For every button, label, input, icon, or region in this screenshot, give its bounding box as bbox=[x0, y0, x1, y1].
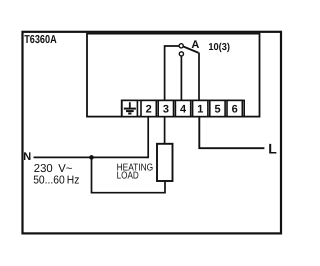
svg-text:230 V~: 230 V~ bbox=[34, 163, 73, 175]
wire terminal 3 down to load bbox=[164, 117, 166, 144]
terminal cell 2 bbox=[141, 100, 156, 116]
svg-text:T6360A: T6360A bbox=[24, 34, 57, 46]
svg-text:10(3): 10(3) bbox=[208, 42, 230, 53]
svg-text:L: L bbox=[268, 140, 277, 156]
terminal labels bbox=[146, 104, 238, 116]
wire terminal 3 up to switch bbox=[165, 46, 179, 100]
terminal cell 1 bbox=[193, 100, 208, 116]
terminal cell 5 bbox=[210, 100, 225, 116]
terminal cell 4 bbox=[175, 100, 190, 116]
svg-text:3: 3 bbox=[163, 104, 169, 116]
svg-text:A: A bbox=[191, 39, 199, 51]
svg-text:6: 6 bbox=[232, 104, 238, 116]
terminal strip container bbox=[122, 100, 245, 116]
terminal earth cell bbox=[122, 100, 137, 116]
svg-text:LOAD: LOAD bbox=[117, 170, 139, 181]
wire junction down bbox=[91, 157, 93, 192]
svg-text:4: 4 bbox=[180, 104, 187, 116]
svg-text:5: 5 bbox=[214, 104, 220, 116]
thermostat body box bbox=[87, 34, 260, 117]
wire load bottom bbox=[164, 181, 166, 194]
svg-text:2: 2 bbox=[146, 104, 152, 116]
heating load resistor bbox=[157, 144, 173, 181]
svg-text:1: 1 bbox=[197, 104, 203, 116]
terminal cell 3 bbox=[158, 100, 173, 116]
svg-text:N: N bbox=[23, 151, 31, 163]
wire terminal 4 up to contact bbox=[180, 56, 182, 100]
wire terminal 1 down to L bbox=[199, 117, 264, 149]
wire bottom return bbox=[91, 192, 165, 194]
wire terminal 2 down to N line bbox=[147, 117, 149, 158]
outer border frame bbox=[23, 32, 282, 234]
switch contact circle lower bbox=[179, 52, 183, 56]
terminal cell 6 bbox=[227, 100, 242, 116]
switch contact circle upper bbox=[179, 44, 183, 48]
switch blade A bbox=[183, 47, 198, 53]
wire terminal 1 up to blade bbox=[198, 53, 200, 101]
N supply wire bbox=[34, 156, 150, 158]
svg-text:50...60 Hz: 50...60 Hz bbox=[33, 174, 79, 186]
junction node bbox=[89, 155, 94, 160]
earth symbol bbox=[124, 102, 136, 113]
